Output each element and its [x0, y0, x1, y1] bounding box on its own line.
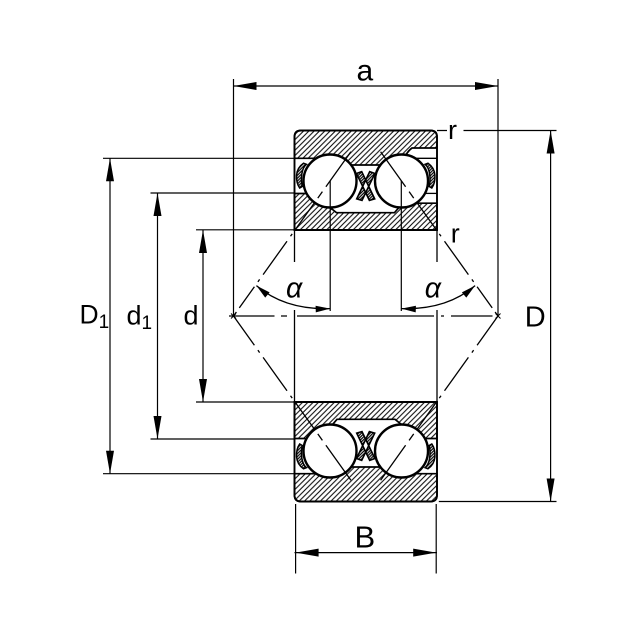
bore line stub right lower: [436, 310, 438, 402]
dimension a: line: [234, 85, 499, 87]
svg-text:r: r: [448, 115, 457, 145]
inner ring upper: raceway edge line right face: [425, 192, 437, 194]
bore line stub right upper: [436, 230, 438, 262]
axis centerline (dash-dot): [229, 315, 493, 317]
dimension D1: bottom extension line: [103, 473, 295, 475]
contact angle arc right: [401, 286, 475, 309]
dimension d: bottom arrow: [199, 379, 207, 402]
arc arrowhead right upper: [462, 286, 475, 298]
inner ring upper half (hatched section): [295, 194, 438, 231]
dimension a: left extension line: [233, 79, 235, 315]
dimension a: right extension line: [497, 79, 499, 315]
radial reference line left ball: [329, 181, 331, 311]
ball upper left: [304, 155, 357, 208]
pressure center mark left: [231, 314, 236, 319]
dimension B: left arrow: [296, 549, 319, 557]
dimension d: line: [202, 230, 204, 402]
dimension d1: line: [157, 193, 159, 439]
dimension D: bottom arrow: [547, 479, 555, 502]
svg-text:D: D: [525, 302, 546, 334]
cage segment upper left: [297, 163, 307, 188]
arc arrowhead left upper: [256, 286, 269, 298]
outer ring upper: counterbore edge line right face: [415, 157, 437, 159]
contact line lower-left ball (dash-dot through ball to pressure center): [234, 316, 351, 480]
svg-text:B: B: [355, 520, 376, 555]
dimension d1: bottom extension line: [151, 438, 295, 440]
bearing upper half outline: [295, 131, 438, 231]
pressure center mark right: [496, 314, 501, 319]
dimension D: line: [550, 131, 552, 502]
ball upper right: [375, 155, 428, 208]
contact angle arc left: [256, 286, 330, 309]
dimension a: right arrow: [475, 82, 498, 90]
dimension d1: top arrow: [154, 193, 162, 216]
inner ring lower half (hatched section): [295, 402, 438, 439]
ball lower left: [304, 425, 357, 478]
bore line stub left lower: [294, 310, 296, 402]
svg-text:a: a: [357, 55, 374, 88]
cage center upper (crossed straps): [357, 172, 375, 201]
svg-text:d: d: [184, 301, 199, 331]
cage segment lower right: [425, 444, 435, 469]
dimension D1: top arrow: [106, 158, 114, 181]
ball lower right: [375, 425, 428, 478]
dimension d: top extension line: [196, 229, 295, 231]
dimension B: right extension line: [435, 504, 437, 574]
outer ring upper half (hatched section): [295, 131, 438, 166]
cage center lower (crossed straps): [357, 432, 375, 461]
svg-text:α: α: [286, 273, 303, 305]
dimension d: top arrow: [199, 230, 207, 253]
arc arrowhead left lower: [316, 306, 331, 313]
dimension D1: top extension line: [103, 157, 295, 159]
dimension B: right arrow: [413, 549, 436, 557]
dimension d1: bottom arrow: [154, 416, 162, 439]
svg-text:α: α: [425, 273, 442, 305]
outer ring lower half (hatched section): [295, 467, 438, 502]
cage segment upper right: [425, 163, 435, 188]
dimension D1: line: [109, 158, 111, 473]
dimension a: left arrow: [234, 82, 257, 90]
contact line lower-right ball (dash-dot through ball to pressure center): [381, 316, 498, 480]
svg-text:r: r: [451, 218, 460, 248]
dimension d1: top extension line: [151, 192, 295, 194]
contact line upper-left ball (dash-dot through ball to pressure center): [234, 152, 351, 316]
cage segment lower left: [297, 444, 307, 469]
arc arrowhead right lower: [401, 306, 416, 313]
dimension D1: bottom arrow: [106, 451, 114, 474]
bore line stub left upper: [294, 230, 296, 262]
dimension D: bottom extension line: [439, 501, 557, 503]
dimension B: line: [295, 552, 438, 554]
radial reference line right ball: [400, 181, 402, 311]
contact line upper-right ball (dash-dot through ball to pressure center): [381, 152, 498, 316]
dimension d: bottom extension line: [196, 401, 295, 403]
dimension D: top extension / r leader: [437, 130, 557, 132]
dimension B: left extension line: [295, 504, 297, 574]
dimension D: top arrow: [547, 131, 555, 154]
bearing lower half outline: [295, 402, 438, 502]
